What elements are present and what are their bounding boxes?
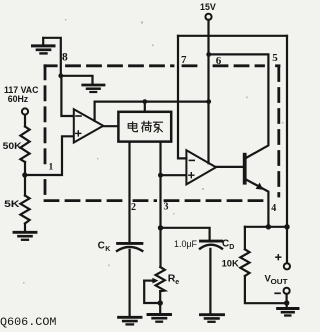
wire U1 output to charge pump: [103, 125, 118, 127]
top supply rail: [178, 35, 287, 37]
node charge-pump top: [142, 99, 147, 104]
ground top-left: [33, 38, 55, 53]
svg-text:8: 8: [62, 51, 68, 63]
svg-text:5: 5: [272, 52, 278, 64]
node supply output: [284, 224, 289, 229]
svg-text:D: D: [229, 244, 234, 251]
ground below CD: [201, 315, 224, 322]
wire from top-left ground to pin 8: [43, 38, 61, 76]
wire 5K to ground: [24, 224, 26, 232]
ground below 5K: [14, 232, 36, 240]
svg-text:6: 6: [216, 55, 222, 67]
svg-text:e: e: [175, 279, 179, 286]
terminal V-: [284, 288, 290, 294]
wire U1 top edge up to supply node: [95, 102, 209, 121]
wire junction to op-amp U1 inverting input: [61, 76, 73, 116]
svg-text:K: K: [105, 246, 110, 253]
Re wiper arrow: [144, 280, 152, 282]
label dian (charge): [128, 122, 137, 132]
wire collector to supply pin 5: [209, 54, 269, 157]
wire junction to inner ground: [61, 76, 93, 84]
wire Re to ground: [159, 291, 161, 314]
wire pin 2 to capacitor CK: [128, 142, 130, 243]
svg-text:1.0μF: 1.0μF: [174, 239, 197, 249]
svg-text:C: C: [98, 241, 105, 252]
svg-text:10K: 10K: [222, 259, 239, 270]
resistor 50K: [20, 127, 29, 163]
node pin-8 junction: [58, 73, 63, 78]
node timing junction: [158, 225, 163, 230]
svg-text:Q606.COM: Q606.COM: [0, 317, 56, 329]
charge pump box U2: [118, 112, 171, 142]
node output ground: [284, 300, 289, 305]
node supply pin 6: [206, 52, 211, 57]
wire timing node to CD: [161, 228, 210, 241]
IC dashed box: [45, 66, 279, 201]
wire pin 3 from charge pump: [159, 142, 161, 175]
ground below Re: [148, 315, 171, 322]
transistor Q1 base bar: [243, 153, 247, 185]
U1 minus sign: [76, 115, 81, 117]
wire 50K to divider node: [24, 162, 26, 175]
svg-text:2: 2: [131, 202, 136, 213]
wire timing node down to Re: [159, 228, 161, 267]
ground inner (pin 8): [83, 85, 104, 92]
svg-text:7: 7: [181, 54, 187, 66]
capacitor CD: [201, 240, 222, 243]
svg-text:4: 4: [271, 203, 276, 214]
node emitter output: [266, 224, 271, 229]
svg-text:60Hz: 60Hz: [8, 94, 29, 104]
resistor Re: [156, 267, 165, 291]
svg-text:1: 1: [49, 162, 54, 172]
label he (pump mid): [142, 121, 152, 132]
wire terminal to 50K: [24, 115, 26, 127]
wire minus terminal to ground: [286, 294, 288, 303]
svg-text:OUT: OUT: [271, 279, 289, 286]
U2 plus sign: [189, 173, 194, 178]
node divider junction: [22, 172, 27, 177]
ground output: [278, 309, 298, 316]
node U2 plus input: [158, 173, 163, 178]
U2 minus sign: [189, 159, 194, 161]
ground below CK: [119, 317, 141, 324]
U1 plus sign: [76, 131, 81, 136]
minus sign: [275, 292, 280, 294]
wire CD to ground: [209, 249, 211, 314]
label beng (pump): [153, 122, 162, 132]
svg-text:5K: 5K: [4, 199, 20, 210]
wire node to ground: [286, 303, 288, 308]
wire U2 output to Q1 base: [216, 166, 243, 168]
resistor 5K: [24, 175, 26, 196]
terminal V+: [284, 263, 290, 269]
terminal 117VAC: [22, 108, 28, 114]
svg-text:3: 3: [164, 201, 169, 212]
plus sign: [276, 255, 281, 260]
op-amp U1: [74, 109, 103, 142]
op-amp U2: [186, 150, 216, 184]
node supply mid: [206, 99, 211, 104]
wire to plus terminal: [286, 227, 288, 263]
capacitor CK: [118, 242, 142, 245]
output top wire: [245, 226, 287, 228]
wire pin 1 to op-amp U1 non-inverting input: [25, 136, 74, 175]
wire outer right supply: [286, 36, 288, 227]
wire 15V supply down to U2: [207, 20, 209, 163]
svg-text:C: C: [222, 239, 229, 250]
wire CK to ground: [129, 250, 131, 317]
terminal 15V: [205, 14, 211, 20]
wire pin 7 rail corner to U2 inverting input: [178, 36, 186, 159]
resistor 10K: [244, 227, 246, 250]
wire node down to charge pump: [144, 102, 146, 112]
Q1 emitter with arrow: [247, 180, 269, 227]
svg-text:50K: 50K: [3, 141, 22, 152]
wire node to U2 plus input: [161, 174, 187, 176]
node Re bottom: [158, 300, 163, 305]
wire pin 3 down to timing node: [159, 175, 161, 228]
svg-text:15V: 15V: [200, 2, 216, 12]
